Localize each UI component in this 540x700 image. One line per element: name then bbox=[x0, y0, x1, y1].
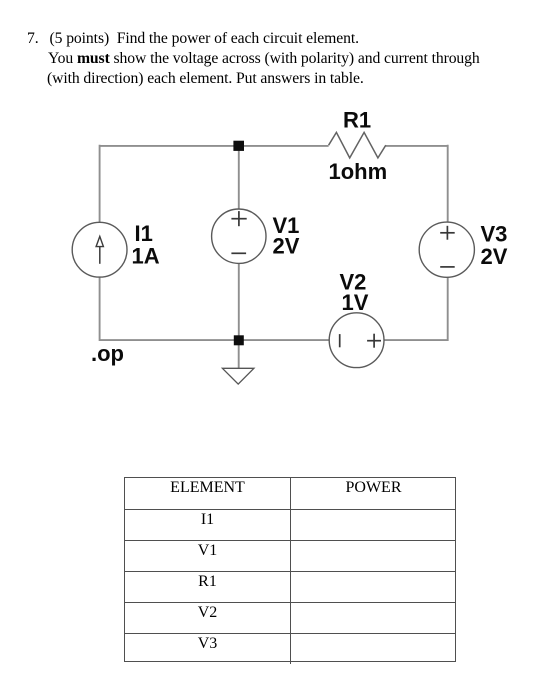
voltage source V1 circle bbox=[212, 209, 266, 263]
wire left vertical lower bbox=[99, 277, 101, 341]
wire middle branch lower bbox=[238, 263, 240, 340]
svg-text:2V: 2V bbox=[481, 244, 508, 269]
node junction top bbox=[233, 141, 244, 151]
V3 plus sign bbox=[440, 232, 455, 234]
wire left vertical bbox=[99, 145, 101, 223]
wire bottom-left horizontal bbox=[99, 339, 329, 341]
V3 minus sign bbox=[440, 266, 455, 268]
I1 arrow shaft bbox=[99, 247, 101, 264]
V1 plus sign bbox=[231, 218, 246, 220]
node junction bottom bbox=[234, 335, 244, 345]
wire ground stub bbox=[238, 340, 240, 368]
ground bbox=[222, 368, 254, 384]
V2 plus sign bbox=[367, 340, 381, 342]
wire right vertical lower bbox=[447, 277, 449, 341]
I1 arrow head bbox=[96, 236, 103, 246]
problem statement line 1 number bbox=[27, 29, 39, 49]
svg-text:2V: 2V bbox=[273, 233, 300, 258]
table header row bbox=[125, 478, 455, 509]
table row V2 bbox=[125, 602, 455, 633]
wire bottom-right horizontal bbox=[384, 339, 448, 341]
svg-text:.op: .op bbox=[91, 341, 124, 366]
voltage source V3 circle bbox=[419, 222, 474, 277]
current source I1 circle bbox=[72, 222, 127, 277]
svg-text:1ohm: 1ohm bbox=[329, 159, 388, 184]
wire top-left horizontal bbox=[99, 145, 329, 147]
problem statement line 2 bbox=[48, 49, 480, 69]
svg-text:V3: V3 bbox=[481, 222, 508, 247]
resistor R1 bbox=[329, 132, 386, 158]
V2 minus bar bbox=[339, 334, 341, 347]
svg-text:I1: I1 bbox=[135, 221, 153, 246]
table row I1 bbox=[125, 509, 455, 540]
voltage source V2 circle bbox=[329, 313, 384, 368]
circuit schematic bbox=[0, 0, 540, 470]
problem statement line 1 bbox=[50, 29, 359, 49]
svg-text:1A: 1A bbox=[132, 243, 160, 268]
wire right vertical upper bbox=[447, 145, 449, 222]
table row R1 bbox=[125, 571, 455, 602]
wire top-right horizontal bbox=[386, 145, 449, 147]
table row V1 bbox=[125, 540, 455, 571]
V1 minus sign bbox=[231, 252, 246, 254]
answer table bbox=[124, 477, 456, 662]
table row V3 bbox=[125, 633, 455, 664]
svg-text:1V: 1V bbox=[342, 290, 369, 315]
svg-text:R1: R1 bbox=[343, 107, 371, 132]
problem statement line 3 bbox=[47, 69, 364, 89]
wire middle branch upper bbox=[238, 146, 240, 209]
